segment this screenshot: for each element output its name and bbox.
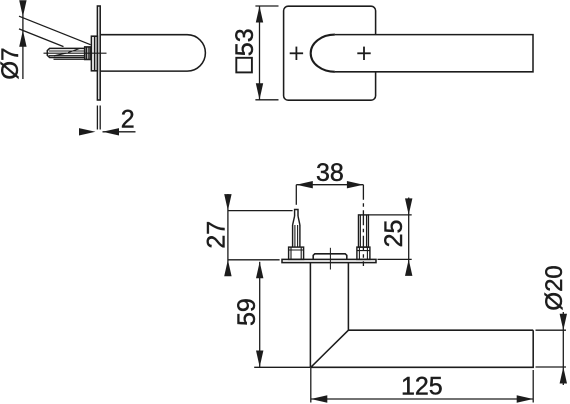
53 dimension line [259, 6, 261, 100]
2 arrow right [103, 128, 120, 135]
svg-text:27: 27 [202, 221, 230, 249]
dimension 25 [368, 198, 411, 275]
dimension 27 [228, 194, 293, 275]
125 dimension line [311, 398, 533, 400]
left screw [289, 210, 304, 260]
spindle body [47, 48, 84, 57]
2 extension line right [99, 106, 101, 130]
left screw shaft [293, 225, 300, 247]
svg-text:38: 38 [316, 159, 344, 187]
right screw collar inner lines [357, 247, 370, 259]
right screw [357, 215, 370, 260]
spindle slash mark 2 [68, 48, 80, 52]
2 dimension tail line [103, 131, 136, 133]
handle neck and lever outline [310, 263, 533, 368]
left screw shaft inner lines [295, 225, 298, 247]
spindle inner line bottom [49, 55, 85, 57]
Ø20 arrow bottom [560, 367, 567, 384]
125 extension line left [310, 368, 312, 403]
25 extension line top [368, 214, 411, 216]
59 arrow bottom [256, 351, 263, 368]
right screw shaft [359, 215, 369, 247]
right screw shaft inner lines [360, 215, 366, 247]
dimension Ø20 [536, 312, 567, 385]
Ø7 arrow top [19, 0, 26, 17]
spindle nut [85, 47, 91, 60]
Ø20 extension line top [536, 329, 567, 331]
centerline of spindle [44, 52, 107, 54]
neck collar [91, 36, 97, 71]
hub centerline [329, 248, 331, 270]
125 arrow left [311, 395, 328, 402]
left screw collar [289, 247, 304, 259]
spindle hub [313, 254, 347, 260]
left screw taper [293, 216, 300, 225]
38 arrow right [347, 181, 364, 188]
cross mark right screw [357, 47, 370, 60]
38 extension line right (screw centerline, dash-dot) [362, 185, 364, 266]
27 extension line top [228, 210, 293, 212]
right screw collar [357, 247, 370, 259]
53 extension line bottom [255, 99, 278, 101]
Ø7 arrow bottom [19, 30, 26, 47]
59 dimension line [259, 262, 261, 367]
53 arrow top [256, 6, 263, 23]
grip bar (side view, stadium right cap) [100, 35, 205, 71]
2 extension line left [96, 106, 98, 130]
svg-text:125: 125 [401, 373, 443, 401]
Ø7 leader line lower [19, 29, 64, 47]
svg-text:53: 53 [231, 28, 259, 56]
cross mark left screw [290, 47, 303, 60]
38 arrow left [296, 181, 313, 188]
lever grip (front view) [335, 35, 533, 72]
Ø7 leader line upper [19, 16, 91, 45]
lever grip left rounded end [311, 35, 335, 72]
rose plate (edge view bottom) [282, 259, 376, 262]
27 extension line bottom [228, 259, 280, 261]
Ø20 extension line bottom [536, 366, 567, 368]
left screw collar inner lines [289, 247, 304, 259]
spindle nut inner lines [87, 47, 89, 60]
spindle slash mark 1 [54, 53, 67, 56]
Ø20 dimension line [562, 312, 564, 385]
125 extension line right [532, 370, 534, 403]
125 arrow right [517, 395, 534, 402]
59 extension line bottom [254, 366, 311, 368]
left screw tip [295, 210, 298, 217]
svg-text:Ø20: Ø20 [541, 265, 568, 310]
Ø7 dimension line [22, 2, 24, 80]
2 arrow left [79, 128, 96, 135]
dimension 125 [311, 368, 533, 403]
rose plate (edge view) [97, 6, 100, 100]
dimension Ø7 [19, 2, 91, 80]
25 arrow top [405, 198, 412, 215]
svg-text:25: 25 [380, 220, 408, 248]
svg-text:Ø7: Ø7 [0, 48, 24, 80]
dimension 53 [255, 6, 278, 100]
27 arrow bottom [224, 260, 231, 277]
53 arrow bottom [256, 83, 263, 100]
svg-text:2: 2 [121, 105, 135, 133]
53 label square symbol [236, 58, 252, 73]
38 dimension line [296, 184, 363, 186]
25 arrow bottom [405, 259, 412, 276]
neck collar inner line [94, 36, 96, 71]
Ø20 arrow top [560, 314, 567, 331]
59 arrow top [256, 262, 263, 279]
svg-text:59: 59 [233, 298, 261, 326]
27 arrow top [224, 194, 231, 211]
25 dimension line [408, 198, 410, 275]
53 extension line top [255, 5, 278, 7]
25 extension line bottom [378, 258, 412, 260]
spindle lower shadow line [54, 58, 85, 60]
dimension 38 [296, 185, 363, 266]
spindle inner line top [49, 50, 85, 52]
dimension 2 [97, 106, 135, 132]
27 dimension line [227, 194, 229, 275]
38 extension line left (screw centerline) [295, 185, 297, 205]
rose square plate [284, 6, 376, 100]
dimension 59 [254, 262, 311, 368]
